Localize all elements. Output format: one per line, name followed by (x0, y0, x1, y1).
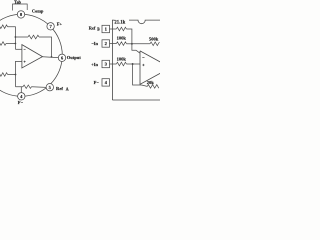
wire +input node to R10 (133, 64, 148, 86)
pin 7 (F+) (47, 23, 54, 30)
wire pin 1 to R6 (110, 28, 117, 30)
resistor R6 21.1k (116, 27, 126, 31)
svg-text:−In: −In (91, 41, 98, 46)
wire pin 3 to R9 (110, 63, 117, 65)
wire non-inverting input path (16, 61, 47, 87)
A1 plus sign (24, 61, 26, 63)
pin 4 box (F-) (102, 79, 110, 86)
wire R1 to inverting node vertical (8, 27, 16, 50)
resistor R3 feedback (28, 35, 39, 39)
resistor R1 (top-left, cut by image edge) (0, 25, 8, 29)
svg-text:Comp: Comp (32, 8, 44, 13)
pin 5 (Ref A) (46, 84, 53, 91)
svg-text:Ref: Ref (56, 86, 63, 91)
wire R9 to A2 non-inverting input (126, 63, 140, 65)
op-amp A2 triangle (apex cut at right edge) (140, 51, 161, 84)
resistor R9 100k (116, 62, 126, 66)
resistor R7 100k (116, 42, 126, 46)
svg-text:F+: F+ (57, 22, 63, 27)
op-amp U1 package outline (TO-99 can circle) (0, 14, 62, 96)
node junction dot (output/feedback) (51, 56, 53, 58)
wire R4 to non-inverting node (8, 74, 16, 76)
pin 1 box (Ref B) (102, 25, 110, 32)
pin 2 box (-In) (102, 40, 110, 47)
resistor R2 (second input, cut by image edge) (0, 42, 6, 46)
svg-text:100k: 100k (117, 36, 127, 41)
wire op-amp A1 output to pin 6 (43, 56, 59, 59)
svg-text:Ref: Ref (89, 26, 96, 31)
resistor R4 (third input, cut by image edge) (0, 73, 8, 77)
svg-text:21.1k: 21.1k (114, 20, 125, 25)
wire into op-amp A1 inverting input (15, 48, 22, 50)
wire R2 to inverting node (6, 43, 15, 45)
pin 4 (F-) (18, 93, 25, 100)
wire summing node to A2 inverting input (132, 44, 140, 53)
svg-text:100k: 100k (117, 56, 127, 61)
A2 minus sign (142, 57, 144, 59)
svg-text:F−: F− (94, 80, 100, 85)
A2 plus sign (142, 64, 144, 66)
pin 6 (Output) (58, 54, 65, 61)
svg-text:Output: Output (67, 55, 82, 60)
node junction dot (feedback tap) (15, 36, 17, 38)
wire pin 2 to R7 (110, 43, 117, 45)
svg-text:F−: F− (18, 100, 24, 105)
svg-text:500k: 500k (149, 36, 159, 41)
tab marker bracket on U1 (13, 4, 28, 11)
pin 3 box (+In) (102, 60, 110, 67)
resistor R8 500k (cut at right edge) (150, 42, 159, 46)
op-amp A1 triangle (22, 45, 43, 68)
node junction dot (R4 join) (15, 74, 17, 76)
wire feedback: node to R3 to output (15, 37, 51, 57)
resistor R5 (to Ref A) (23, 85, 32, 88)
wire summing node to R8 feedback (132, 43, 150, 45)
svg-text:A: A (66, 86, 69, 91)
resistor R10 20k (cut at right edge) (147, 85, 159, 89)
node junction dot (summing node) (131, 43, 133, 45)
pin 8 (top) (17, 11, 24, 18)
wire R6 to summing node (126, 29, 131, 44)
svg-text:Tab: Tab (14, 0, 22, 5)
A1 minus sign (24, 48, 26, 50)
IC U2 package outline (DIP, cut at right edge) (112, 20, 160, 100)
node junction dot (+input node) (132, 63, 134, 65)
node junction dot (R2 join) (15, 43, 17, 45)
svg-text:20k: 20k (147, 80, 155, 85)
wire R7 to summing node dot (126, 43, 131, 45)
wire pin 4 stub (20, 87, 22, 93)
svg-text:+In: +In (91, 62, 98, 67)
